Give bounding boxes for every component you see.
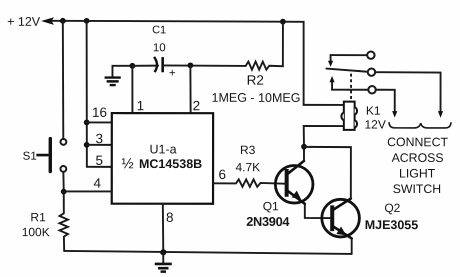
svg-text:1: 1 [137,98,145,113]
svg-text:C1: C1 [152,24,166,36]
svg-text:MC14538B: MC14538B [139,157,202,171]
svg-text:R1: R1 [30,210,46,224]
svg-text:1MEG - 10MEG: 1MEG - 10MEG [212,91,301,105]
svg-text:8: 8 [166,210,174,225]
svg-text:6: 6 [218,167,226,182]
svg-text:10: 10 [153,42,166,54]
svg-text:SWITCH: SWITCH [393,182,442,196]
svg-text:5: 5 [95,153,103,168]
svg-text:½: ½ [121,156,133,172]
svg-text:K1: K1 [366,104,381,118]
svg-text:2N3904: 2N3904 [246,214,290,229]
svg-text:R3: R3 [240,143,256,157]
svg-text:4.7K: 4.7K [235,160,260,174]
svg-text:16: 16 [92,105,107,120]
svg-text:3: 3 [95,131,103,146]
svg-text:+: + [169,68,176,80]
svg-text:R2: R2 [247,73,264,88]
svg-text:Q2: Q2 [384,201,400,215]
svg-text:Q1: Q1 [263,199,279,213]
svg-text:100K: 100K [22,225,50,239]
svg-text:CONNECT: CONNECT [387,135,448,149]
svg-text:12V: 12V [365,117,386,131]
svg-text:LIGHT: LIGHT [399,166,436,180]
svg-text:4: 4 [94,176,102,191]
svg-text:+ 12V: + 12V [7,15,41,29]
svg-text:S1: S1 [23,151,37,163]
svg-text:MJE3055: MJE3055 [365,218,419,232]
svg-text:2: 2 [193,98,201,113]
svg-text:ACROSS: ACROSS [392,151,444,165]
svg-text:U1-a: U1-a [149,142,176,156]
